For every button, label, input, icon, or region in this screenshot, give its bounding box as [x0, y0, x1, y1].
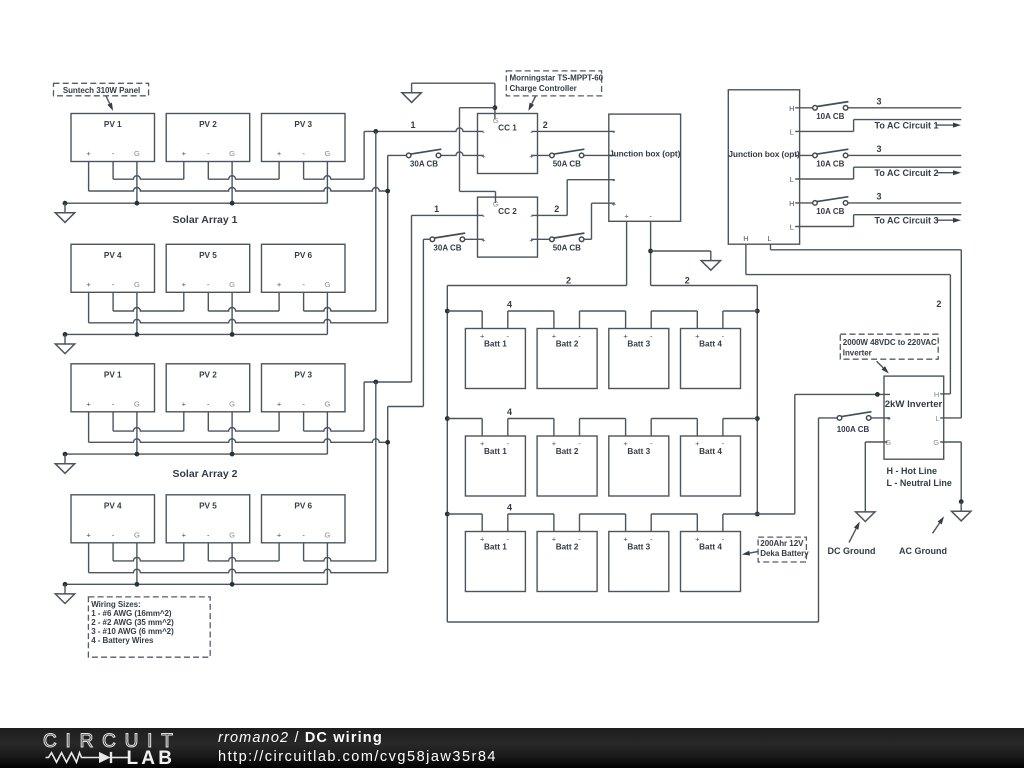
ground symbol (DC ground) — [864, 511, 866, 513]
svg-text:G: G — [134, 399, 140, 408]
svg-text:Batt 1: Batt 1 — [484, 447, 507, 456]
wire inverter L trunk — [960, 250, 962, 418]
svg-text:PV 4: PV 4 — [104, 251, 122, 260]
wire PV 3 - pin down (row 1) — [303, 162, 305, 180]
svg-text:PV 5: PV 5 — [199, 501, 217, 510]
svg-text:Solar Array 1: Solar Array 1 — [173, 214, 238, 226]
svg-text:PV 1: PV 1 — [104, 370, 122, 379]
ground symbol (row 3) — [64, 454, 66, 464]
wire plus trunk array 2 lower — [387, 407, 389, 573]
svg-text:G: G — [134, 149, 140, 158]
wire battery row 3 link 5 — [723, 513, 757, 515]
wire minus header array 2 — [364, 381, 411, 383]
wire CC2 G stub — [495, 191, 497, 203]
svg-text:PV 2: PV 2 — [199, 370, 217, 379]
wire CC2 minus trunk — [411, 215, 413, 382]
svg-text:2kW Inverter: 2kW Inverter — [885, 399, 943, 410]
svg-text:1: 1 — [410, 120, 415, 130]
svg-text:10A CB: 10A CB — [816, 207, 844, 216]
node battery row 2 minus tap — [755, 416, 760, 421]
svg-text:+: + — [277, 149, 282, 158]
svg-text:+: + — [624, 211, 629, 220]
wire minus riser array 1 — [363, 131, 365, 179]
battery Batt 3 (row 3) — [609, 532, 669, 592]
node battery row 1 minus tap — [755, 309, 760, 314]
battery Batt 3 (row 1) — [609, 329, 669, 389]
wire J2 L2 riser — [853, 167, 855, 179]
svg-text:+: + — [695, 332, 700, 341]
svg-text:+: + — [612, 199, 617, 208]
svg-text:2: 2 — [685, 276, 690, 286]
wire PV 3 + pin to series link (row 3) — [278, 412, 280, 431]
wire minus trunk array 2 — [375, 382, 377, 561]
node battery row 3 minus tap — [755, 512, 760, 517]
wire inverter H trunk — [949, 275, 951, 394]
svg-text:100A CB: 100A CB — [837, 425, 870, 434]
wire J2 L1 riser — [853, 120, 855, 132]
wire PV 1 + pin to plus bus (row 1) — [88, 162, 90, 192]
svg-text:Batt 2: Batt 2 — [556, 543, 579, 552]
wire PV 3 G pin to ground bus (row 3) — [326, 412, 328, 454]
wire J2 H1 lead — [795, 107, 813, 109]
svg-text:Solar Array 2: Solar Array 2 — [173, 468, 238, 480]
wire Batt 2 row 3 - pin — [579, 514, 581, 532]
svg-text:3: 3 — [876, 192, 881, 202]
svg-text:3 - #10 AWG (6 mm^2): 3 - #10 AWG (6 mm^2) — [91, 627, 174, 636]
wire Batt 4 row 2 - pin — [722, 419, 724, 437]
wire Batt 3 row 2 + pin — [625, 419, 627, 437]
wire Batt 3 row 3 + pin — [625, 514, 627, 532]
svg-text:4: 4 — [507, 503, 512, 513]
annotation arrow Deka battery — [750, 552, 758, 554]
wire AC hot circuit 2 — [848, 154, 961, 156]
wire PV 1 - pin down (row 3) — [112, 412, 114, 431]
svg-text:Batt 3: Batt 3 — [627, 447, 650, 456]
svg-text:50A CB: 50A CB — [553, 244, 581, 253]
ground symbol (DC bus) — [710, 251, 712, 261]
wire Batt 4 row 1 - pin — [722, 311, 724, 329]
wire PV 5 - pin down (row 2) — [207, 292, 209, 311]
wire battery row 3 link 1 — [447, 513, 482, 515]
svg-text:H: H — [743, 234, 748, 243]
svg-text:To AC Circuit 3: To AC Circuit 3 — [874, 216, 938, 226]
svg-text:L: L — [767, 234, 771, 243]
wire inverter minus riser — [794, 394, 796, 514]
wire J2 L3 lead — [795, 226, 853, 228]
wire DC minus ground stub — [651, 250, 711, 252]
svg-text:G: G — [493, 116, 499, 125]
svg-text:Batt 1: Batt 1 — [484, 543, 507, 552]
wire Batt 4 row 3 + pin — [696, 514, 698, 532]
wire 30A CB 2 left lead — [423, 238, 430, 240]
wire J2 H output run — [746, 274, 951, 276]
svg-text:Batt 1: Batt 1 — [484, 340, 507, 349]
wire PV 2 + pin to series link (row 3) — [183, 412, 185, 431]
wire Batt 1 row 1 + pin — [481, 311, 483, 329]
svg-text:10A CB: 10A CB — [816, 112, 844, 121]
battery Batt 2 (row 2) — [537, 436, 597, 496]
svg-text:50A CB: 50A CB — [553, 160, 581, 169]
svg-text:L: L — [790, 127, 794, 136]
node CC ground junction — [493, 105, 498, 110]
svg-text:10A CB: 10A CB — [816, 160, 844, 169]
svg-text:4: 4 — [507, 300, 512, 310]
wire plus bus (row 4) — [89, 569, 388, 572]
node ground attach (row 3) — [63, 452, 68, 457]
wire battery minus to inverter run — [757, 513, 795, 515]
wire battery row 2 link 2 — [508, 418, 554, 420]
node battery row 1 plus tap — [445, 309, 450, 314]
battery Batt 3 (row 2) — [609, 436, 669, 496]
svg-text:L: L — [790, 223, 794, 232]
wire Batt 3 row 3 - pin — [650, 514, 652, 532]
svg-text:30A CB: 30A CB — [433, 244, 461, 253]
annotation arrow Suntech — [106, 96, 110, 104]
battery Batt 1 (row 3) — [465, 532, 525, 592]
svg-text:Deka Battery: Deka Battery — [760, 549, 809, 558]
wire Batt 3 row 2 - pin — [650, 419, 652, 437]
circuit breaker 100A CB — [841, 412, 872, 417]
wire PV 1 G pin to ground bus (row 1) — [136, 162, 138, 204]
node ground bus junction at PV G a (row 3) — [135, 452, 140, 457]
wire Batt 2 row 2 + pin — [553, 419, 555, 437]
wire PV 6 + pin to series link (row 4) — [278, 543, 280, 561]
annotation Morningstar charge controller — [506, 71, 601, 96]
annotation arrow inverter label — [877, 361, 884, 368]
svg-text:+: + — [86, 399, 91, 408]
svg-text:Batt 2: Batt 2 — [556, 447, 579, 456]
svg-text:2: 2 — [936, 299, 941, 309]
wire CC1 minus output to junction box — [532, 130, 615, 132]
wire Batt 1 row 2 - pin — [507, 419, 509, 437]
svg-text:Batt 4: Batt 4 — [699, 340, 722, 349]
solar panel PV 5 (row 4) — [166, 495, 250, 543]
wire junction box 1 plus feeder — [626, 221, 628, 285]
annotation Wiring Sizes legend — [88, 597, 210, 657]
wire Batt 1 row 3 + pin — [481, 514, 483, 532]
wire battery row 3 link 3 — [580, 513, 626, 515]
circuit breaker 50A CB (CC2) — [553, 233, 584, 238]
wire 50A CB 2 lead — [584, 238, 592, 240]
svg-text:PV 5: PV 5 — [199, 251, 217, 260]
wire series link PV-:PV+ b (row 1) — [208, 176, 279, 180]
svg-text:PV 6: PV 6 — [294, 251, 312, 260]
wire ground bus (row 2) — [65, 333, 327, 335]
svg-text:+: + — [277, 530, 282, 539]
svg-text:+: + — [623, 332, 628, 341]
wire string negative to trunk (row 4) — [304, 557, 376, 561]
annotation arrow DC Ground — [849, 529, 856, 543]
wire CC2 plus to junction box — [592, 202, 615, 204]
svg-text:+: + — [887, 414, 892, 423]
ground symbol (row 1) — [64, 203, 66, 213]
battery Batt 2 (row 3) — [537, 532, 597, 592]
svg-text:+: + — [480, 439, 485, 448]
wire PV 2 - pin down (row 1) — [207, 162, 209, 180]
wire inverter L lead — [940, 417, 961, 419]
wire Batt 4 row 2 + pin — [696, 419, 698, 437]
node AC ground node — [959, 499, 964, 504]
battery Batt 4 (row 2) — [681, 436, 741, 496]
node battery row 2 plus tap — [445, 416, 450, 421]
wire series link PV-:PV+ a (row 1) — [113, 176, 184, 180]
wire series link PV-:PV+ a (row 4) — [113, 557, 184, 561]
node plus bus tap array 2 — [385, 440, 390, 445]
wire Batt 1 row 2 + pin — [481, 419, 483, 437]
annotation arrow Morningstar — [532, 96, 536, 103]
annotation Suntech 310W Panel — [54, 83, 149, 96]
svg-text:CC 2: CC 2 — [498, 207, 517, 216]
wire 100A CB to inverter plus — [871, 417, 890, 419]
wire battery row 2 link 4 — [651, 418, 697, 420]
wire DC ground drop — [864, 442, 866, 512]
wire battery plus top bus — [447, 285, 626, 287]
wire plus trunk to 30A CB 1 — [388, 154, 407, 156]
svg-text:+: + — [480, 332, 485, 341]
wire PV 5 G pin to ground bus (row 2) — [231, 292, 233, 334]
solar panel PV 1 (row 3) — [71, 364, 155, 412]
solar panel PV 2 (row 1) — [166, 114, 250, 162]
svg-text:+: + — [695, 535, 700, 544]
wire plus bus (row 1) — [89, 188, 388, 192]
node ground attach (row 4) — [63, 582, 68, 587]
wire inverter minus lead — [795, 393, 890, 395]
wire J2 H2 lead — [795, 154, 813, 156]
wire series link PV-:PV+ b (row 3) — [208, 428, 279, 432]
svg-text:+: + — [623, 535, 628, 544]
wire series link PV-:PV+ a (row 3) — [113, 428, 184, 432]
wire AC neutral circuit 2 — [854, 166, 962, 168]
wire string negative to riser (row 3) — [304, 428, 365, 432]
svg-text:H: H — [789, 199, 794, 208]
circuit breaker 10A CB (circuit 2) — [816, 149, 848, 154]
svg-text:+: + — [277, 280, 282, 289]
solar panel PV 6 (row 4) — [262, 495, 346, 543]
node ground bus junction at PV G b (row 2) — [230, 332, 235, 337]
svg-text:+: + — [480, 535, 485, 544]
solar panel PV 4 (row 2) — [71, 244, 155, 292]
solar panel PV 4 (row 4) — [71, 495, 155, 543]
svg-text:+: + — [182, 399, 187, 408]
wire series link PV-:PV+ a (row 2) — [113, 308, 184, 312]
wire battery row 3 link 2 — [508, 513, 554, 515]
ground symbol (row 2) — [64, 334, 66, 344]
wire battery plus riser to 100A CB — [818, 418, 820, 622]
wire battery row 1 link 4 — [651, 310, 697, 312]
svg-text:To AC Circuit 1: To AC Circuit 1 — [874, 120, 938, 130]
svg-text:G: G — [134, 280, 140, 289]
svg-text:Batt 3: Batt 3 — [627, 340, 650, 349]
annotation 2000W inverter label — [840, 334, 938, 359]
wire ground bus (row 3) — [65, 453, 327, 455]
ground symbol (row 4) — [64, 584, 66, 594]
wire PV 6 G pin to ground bus (row 4) — [326, 543, 328, 585]
wire minus trunk array 1 — [375, 131, 377, 311]
svg-text:G: G — [324, 149, 330, 158]
wire battery row 2 link 1 — [447, 418, 482, 420]
svg-text:3: 3 — [876, 144, 881, 154]
wire PV 1 G pin to ground bus (row 3) — [136, 412, 138, 454]
svg-text:+: + — [86, 530, 91, 539]
svg-text:4 - Battery Wires: 4 - Battery Wires — [91, 636, 154, 645]
wire battery right bus — [756, 286, 758, 515]
node ground attach (row 1) — [63, 201, 68, 206]
junction box J2 (AC) — [728, 90, 799, 244]
svg-text:DC Ground: DC Ground — [828, 546, 876, 556]
wire plus bus (row 2) — [89, 319, 388, 323]
wire J2 L1 lead — [795, 130, 853, 132]
svg-text:H - Hot Line: H - Hot Line — [887, 466, 938, 476]
svg-text:G: G — [229, 399, 235, 408]
svg-text:Batt 4: Batt 4 — [699, 543, 722, 552]
svg-text:2: 2 — [543, 120, 548, 130]
wire PV 5 + pin to series link (row 2) — [183, 292, 185, 311]
solar panel PV 3 (row 1) — [262, 114, 346, 162]
wire Batt 3 row 1 + pin — [625, 311, 627, 329]
node DC minus ground tap — [648, 249, 653, 254]
ground symbol (charge controllers) — [411, 83, 413, 93]
circuit breaker 30A CB (array 2) — [434, 233, 466, 238]
wire plus trunk array 1 — [387, 155, 389, 322]
svg-text:Batt 2: Batt 2 — [556, 340, 579, 349]
wire battery row 1 link 5 — [723, 310, 757, 312]
svg-text:200Ahr 12V: 200Ahr 12V — [760, 539, 804, 548]
wire series link PV-:PV+ b (row 4) — [208, 557, 279, 561]
wire Batt 4 row 1 + pin — [696, 311, 698, 329]
wire PV 5 - pin down (row 4) — [207, 543, 209, 561]
wire PV 6 + pin to series link (row 2) — [278, 292, 280, 311]
svg-text:G: G — [229, 530, 235, 539]
wire PV 6 - pin down (row 2) — [303, 292, 305, 311]
battery Batt 4 (row 1) — [681, 329, 741, 389]
node ground bus junction at PV G a (row 4) — [135, 582, 140, 587]
circuit breaker 10A CB (circuit 3) — [816, 197, 848, 202]
wire Batt 2 row 3 + pin — [553, 514, 555, 532]
wire plus trunk jog array 2 — [388, 406, 424, 408]
inverter U1 2kW — [884, 376, 944, 459]
wire CC1 plus output — [532, 154, 550, 156]
wire inverter G right lead — [940, 441, 961, 443]
wire junction box 1 minus feeder — [650, 221, 652, 285]
wire CC2 ground run — [460, 190, 496, 192]
wire CC2 plus riser — [591, 203, 593, 239]
svg-text:G: G — [324, 530, 330, 539]
wire AC ground drop — [960, 442, 962, 502]
charge controller CC2 — [478, 197, 538, 257]
wire CC2 minus output riser — [566, 180, 568, 216]
CircuitLab logo — [0, 728, 200, 768]
svg-text:AC Ground: AC Ground — [899, 546, 947, 556]
wire string negative to trunk (row 2) — [304, 308, 376, 312]
svg-text:Charge Controller: Charge Controller — [510, 84, 577, 93]
svg-text:Wiring Sizes:: Wiring Sizes: — [91, 600, 141, 609]
svg-text:PV 6: PV 6 — [294, 501, 312, 510]
wire Batt 4 row 3 - pin — [722, 514, 724, 532]
wire J2 H output drop — [745, 244, 747, 274]
wire 30A CB 2 to CC2 plus — [465, 238, 484, 240]
svg-text:G: G — [324, 280, 330, 289]
wire AC hot circuit 3 — [848, 202, 961, 204]
circuit breaker 30A CB (array 1) — [410, 149, 441, 154]
wire 30A CB 1 to CC1 plus — [441, 152, 484, 155]
svg-text:LAB: LAB — [127, 748, 176, 768]
wire J2 H3 lead — [795, 202, 813, 204]
wire series link PV-:PV+ b (row 2) — [208, 308, 279, 312]
wire ground bus (row 4) — [65, 583, 327, 585]
svg-text:H: H — [934, 390, 939, 399]
svg-text:PV 3: PV 3 — [294, 120, 312, 129]
svg-text:+: + — [623, 439, 628, 448]
wire 50A CB 1 to junction box — [584, 154, 615, 156]
wire battery row 2 link 3 — [580, 418, 626, 420]
svg-text:Junction box (opt): Junction box (opt) — [728, 149, 800, 159]
svg-text:Junction box (opt): Junction box (opt) — [609, 149, 681, 159]
svg-text:1 - #6 AWG (16mm^2): 1 - #6 AWG (16mm^2) — [91, 609, 172, 618]
wire string negative to riser (row 1) — [304, 176, 365, 180]
solar panel PV 2 (row 3) — [166, 364, 250, 412]
wire minus riser array 2 — [363, 382, 365, 431]
svg-text:Batt 4: Batt 4 — [699, 447, 722, 456]
wire CC ground jog — [460, 107, 495, 109]
node ground bus junction at PV G b (row 1) — [230, 201, 235, 206]
wire Batt 2 row 1 + pin — [553, 311, 555, 329]
svg-text:L: L — [935, 414, 939, 423]
wire PV 4 + pin to plus bus (row 4) — [88, 543, 90, 573]
battery Batt 4 (row 3) — [681, 532, 741, 592]
wire PV 3 G pin to ground bus (row 1) — [326, 162, 328, 204]
svg-text:H: H — [789, 104, 794, 113]
svg-text:Morningstar TS-MPPT-60: Morningstar TS-MPPT-60 — [510, 73, 604, 82]
svg-text:+: + — [86, 280, 91, 289]
wire plus bus (row 3) — [89, 439, 388, 443]
svg-text:+: + — [481, 152, 486, 161]
wire PV 4 G pin to ground bus (row 4) — [136, 543, 138, 585]
svg-text:L - Neutral Line: L - Neutral Line — [887, 478, 952, 488]
wire PV 2 G pin to ground bus (row 1) — [231, 162, 233, 204]
node minus trunk tap array 1 — [373, 129, 378, 134]
wire PV 1 - pin down (row 1) — [112, 162, 114, 180]
ground symbol (AC ground) — [960, 502, 962, 512]
wire AC hot circuit 1 — [848, 107, 961, 109]
svg-text:PV 3: PV 3 — [294, 370, 312, 379]
svg-text:2: 2 — [554, 204, 559, 214]
svg-text:G: G — [933, 438, 939, 447]
battery Batt 2 (row 1) — [537, 329, 597, 389]
battery Batt 1 (row 2) — [465, 436, 525, 496]
svg-text:4: 4 — [507, 407, 512, 417]
wire battery row 1 link 3 — [580, 310, 626, 312]
wire plus trunk array 2 upper — [422, 239, 424, 406]
junction box J1 (DC) — [609, 114, 681, 221]
svg-text:G: G — [493, 199, 499, 208]
battery Batt 1 (row 1) — [465, 329, 525, 389]
wire J2 L output run — [771, 249, 962, 251]
wire PV 2 + pin to series link (row 1) — [183, 162, 185, 180]
footer bar — [0, 728, 1024, 768]
svg-text:+: + — [695, 439, 700, 448]
svg-text:G: G — [134, 530, 140, 539]
circuit breaker 10A CB (circuit 1) — [816, 102, 848, 107]
wire battery row 3 link 4 — [651, 513, 697, 515]
wire CC ground trunk — [459, 108, 461, 192]
annotation 200Ahr Deka battery label — [758, 537, 806, 562]
node inverter minus join — [875, 392, 880, 397]
wire battery row 1 link 2 — [508, 310, 554, 312]
svg-text:PV 1: PV 1 — [104, 120, 122, 129]
svg-text:2000W 48VDC to 220VAC: 2000W 48VDC to 220VAC — [843, 338, 937, 347]
wire PV 3 - pin down (row 3) — [303, 412, 305, 431]
svg-text:+: + — [552, 332, 557, 341]
